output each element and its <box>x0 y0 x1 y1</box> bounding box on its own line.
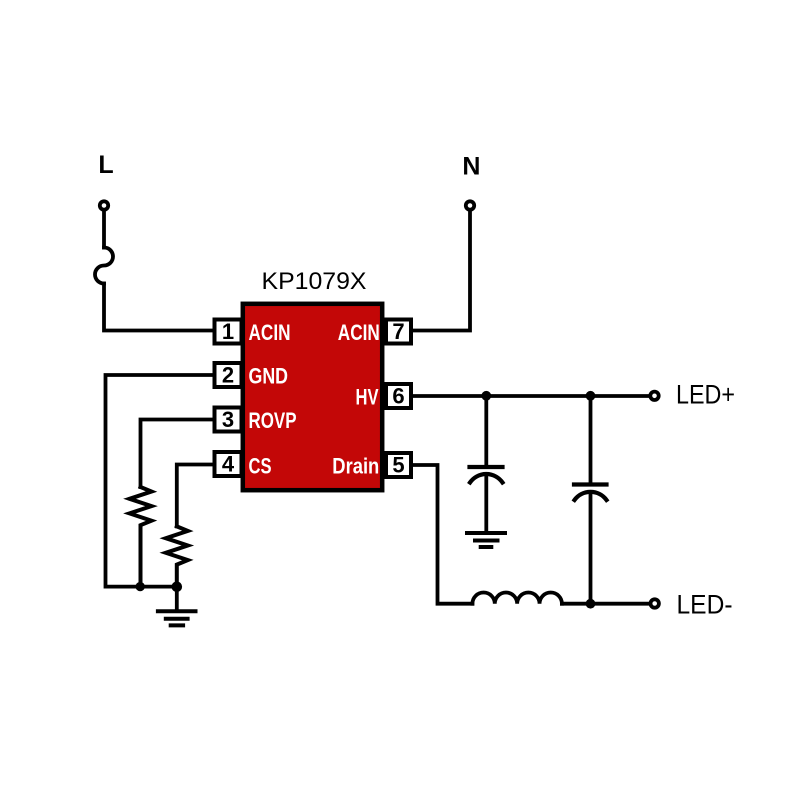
svg-text:L: L <box>98 151 113 179</box>
svg-text:7: 7 <box>392 319 404 344</box>
svg-text:3: 3 <box>222 407 234 432</box>
svg-text:Drain: Drain <box>332 453 379 478</box>
svg-text:6: 6 <box>392 384 404 409</box>
svg-text:5: 5 <box>392 453 404 478</box>
svg-text:ROVP: ROVP <box>249 408 297 433</box>
svg-text:LED-: LED- <box>677 589 733 619</box>
svg-text:1: 1 <box>222 319 234 344</box>
svg-text:ACIN: ACIN <box>338 320 380 345</box>
svg-text:N: N <box>462 153 480 181</box>
svg-text:2: 2 <box>222 363 234 388</box>
svg-text:HV: HV <box>356 385 379 410</box>
svg-text:GND: GND <box>249 363 289 388</box>
svg-text:CS: CS <box>249 453 272 478</box>
svg-text:LED+: LED+ <box>676 379 735 409</box>
svg-text:KP1079X: KP1079X <box>262 268 367 295</box>
svg-text:4: 4 <box>222 452 235 477</box>
svg-text:ACIN: ACIN <box>249 320 291 345</box>
